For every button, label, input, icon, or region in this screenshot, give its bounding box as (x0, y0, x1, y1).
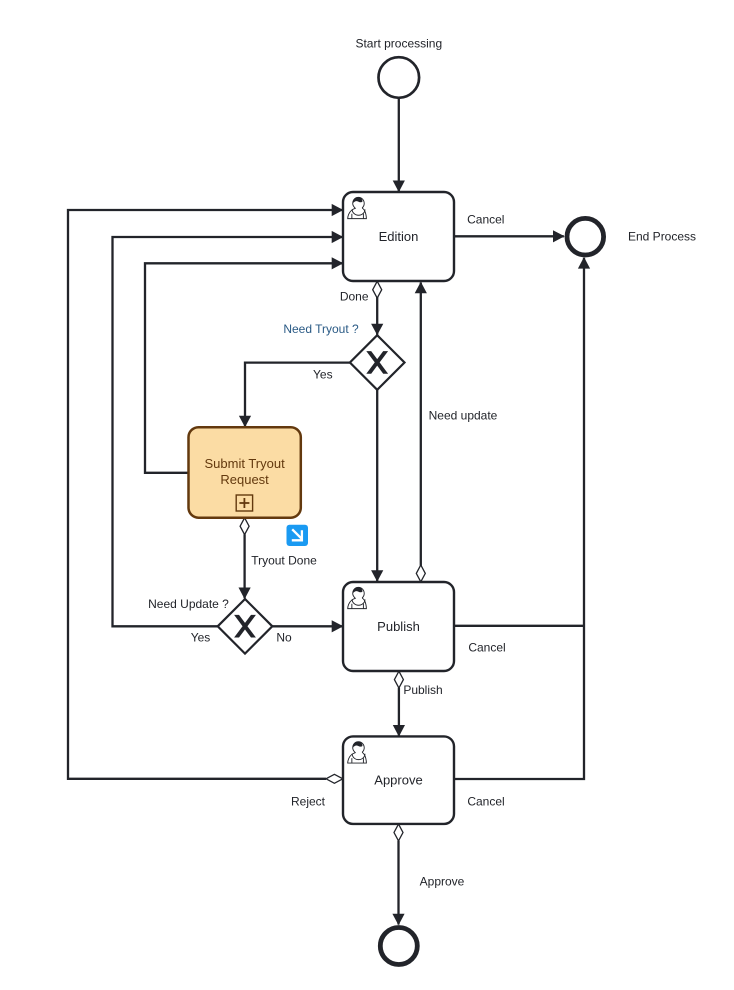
wire: Approve Cancel right then up to End Process (454, 258, 584, 779)
svg-text:Edition: Edition (379, 229, 419, 244)
task: Publish (343, 582, 454, 671)
svg-text:Need Update ?: Need Update ? (148, 597, 229, 611)
svg-text:Cancel: Cancel (468, 641, 505, 655)
wire: Approve Reject back to Edition, conditional diamond at Approve left (68, 210, 343, 783)
wire: gateway Yes to Submit Tryout Request (245, 363, 350, 427)
svg-text:Cancel: Cancel (467, 795, 504, 809)
gateway Need Tryout (exclusive X) (350, 335, 405, 390)
task: Submit Tryout Request (orange subprocess) (189, 427, 301, 518)
svg-text:End Process: End Process (628, 230, 696, 244)
end event: End Process (567, 218, 604, 255)
wire: start event to Edition task (398, 98, 400, 191)
svg-text:Reject: Reject (291, 795, 326, 809)
svg-text:Need Tryout ?: Need Tryout ? (283, 322, 359, 336)
subprocess plus marker (236, 495, 252, 511)
wire: Publish to Edition (Need update), conditional diamond at Publish top (416, 283, 425, 582)
svg-text:Start processing: Start processing (355, 36, 442, 50)
wire: Publish to Approve (Publish), conditional diamond (394, 671, 403, 736)
svg-text:Done: Done (340, 290, 369, 304)
wire: Approve to bottom end event (Approve), conditional diamond (394, 824, 403, 924)
svg-text:Cancel: Cancel (467, 213, 504, 227)
wire: Publish Cancel to right vertical (454, 625, 584, 627)
svg-text:Submit Tryout: Submit Tryout (204, 456, 285, 471)
wire: gateway Need Update Yes to Edition (113, 237, 343, 626)
wire: gateway Need Tryout down to Publish (376, 390, 378, 581)
task: Edition (343, 192, 454, 281)
user icon (Approve) (348, 742, 367, 763)
svg-text:No: No (276, 630, 292, 644)
end event: bottom (380, 928, 417, 965)
svg-text:Approve: Approve (374, 772, 422, 787)
svg-text:Yes: Yes (313, 367, 333, 381)
svg-text:Publish: Publish (403, 683, 442, 697)
wire: Submit Tryout Request back to Edition (145, 263, 343, 473)
wire: Edition to End Process (Cancel) (454, 235, 564, 237)
gateway Need Update (exclusive X) (218, 599, 273, 654)
svg-text:Tryout Done: Tryout Done (251, 554, 317, 568)
svg-text:Approve: Approve (420, 875, 465, 889)
wire: Edition to gateway Need Tryout (Done), conditional diamond marker (373, 281, 382, 334)
svg-text:Request: Request (220, 472, 269, 487)
svg-text:Need update: Need update (429, 408, 498, 422)
user icon (Publish) (348, 587, 367, 608)
svg-text:Publish: Publish (377, 619, 420, 634)
svg-text:Yes: Yes (191, 630, 211, 644)
wire: gateway Need Update No to Publish (272, 625, 342, 627)
task: Approve (343, 736, 454, 824)
wire: Submit Tryout Request to gateway Need Update (Tryout Done), conditional diamond (240, 518, 249, 599)
start event circle (379, 57, 420, 98)
blue expand overlay icon (287, 525, 309, 546)
user icon (Edition) (348, 197, 367, 218)
